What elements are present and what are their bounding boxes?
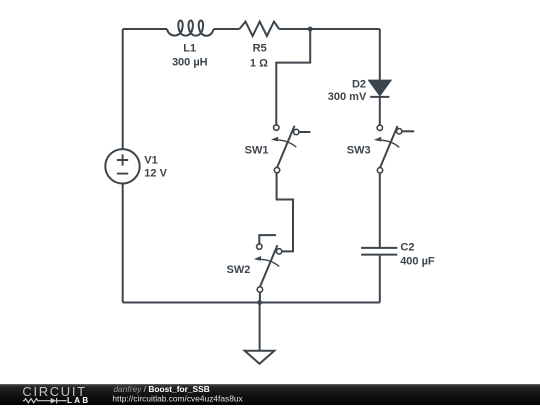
svg-text:300 mV: 300 mV <box>328 91 367 103</box>
ground <box>259 303 261 351</box>
svg-text:SW1: SW1 <box>245 144 269 156</box>
wire bottom bus <box>123 302 380 304</box>
svg-text:SW3: SW3 <box>347 144 371 156</box>
inductor L1 <box>167 21 214 36</box>
wire V1 to bottom bus <box>122 183 124 302</box>
wire top left segment <box>123 28 167 30</box>
svg-text:400 µF: 400 µF <box>400 256 435 268</box>
logo schematic line with resistor and diode <box>23 398 67 404</box>
wire junction jog to SW1 <box>276 29 310 125</box>
wire R5 to top-right corner <box>279 28 380 30</box>
wire SW1 to SW2 jog <box>277 173 293 252</box>
svg-text:300 µH: 300 µH <box>172 57 208 69</box>
wire D2 to SW3 <box>379 97 381 125</box>
wire right branch to D2 <box>379 29 381 80</box>
svg-text:LAB: LAB <box>67 396 90 405</box>
svg-text:C2: C2 <box>400 242 414 254</box>
svg-text:12 V: 12 V <box>144 168 167 180</box>
capacitor C2 <box>361 248 397 255</box>
svg-text:L1: L1 <box>183 43 196 55</box>
svg-text:http://circuitlab.com/cve4uz4f: http://circuitlab.com/cve4uz4fas8ux <box>112 393 243 403</box>
switch SW2 <box>254 235 282 292</box>
svg-text:D2: D2 <box>352 79 366 91</box>
wire between L1 and R5 <box>214 28 240 30</box>
resistor R5 <box>239 22 279 36</box>
diode D2 <box>369 81 390 95</box>
footer bar <box>0 384 540 405</box>
switch SW1 <box>271 125 311 173</box>
svg-text:1 Ω: 1 Ω <box>250 58 268 70</box>
wire left branch (top wire to V1) <box>122 29 124 149</box>
svg-text:SW2: SW2 <box>227 264 251 276</box>
svg-text:R5: R5 <box>253 43 267 55</box>
wire C2 to bus <box>379 256 381 303</box>
wire SW2 to bus <box>259 292 261 302</box>
voltage source V1 <box>105 149 139 183</box>
wire SW3 to C2 <box>379 173 381 247</box>
node junction dot top <box>308 27 313 32</box>
svg-text:V1: V1 <box>144 155 157 167</box>
node junction dot bottom <box>257 300 262 305</box>
switch SW3 <box>374 125 414 173</box>
diode triangle <box>51 398 57 404</box>
